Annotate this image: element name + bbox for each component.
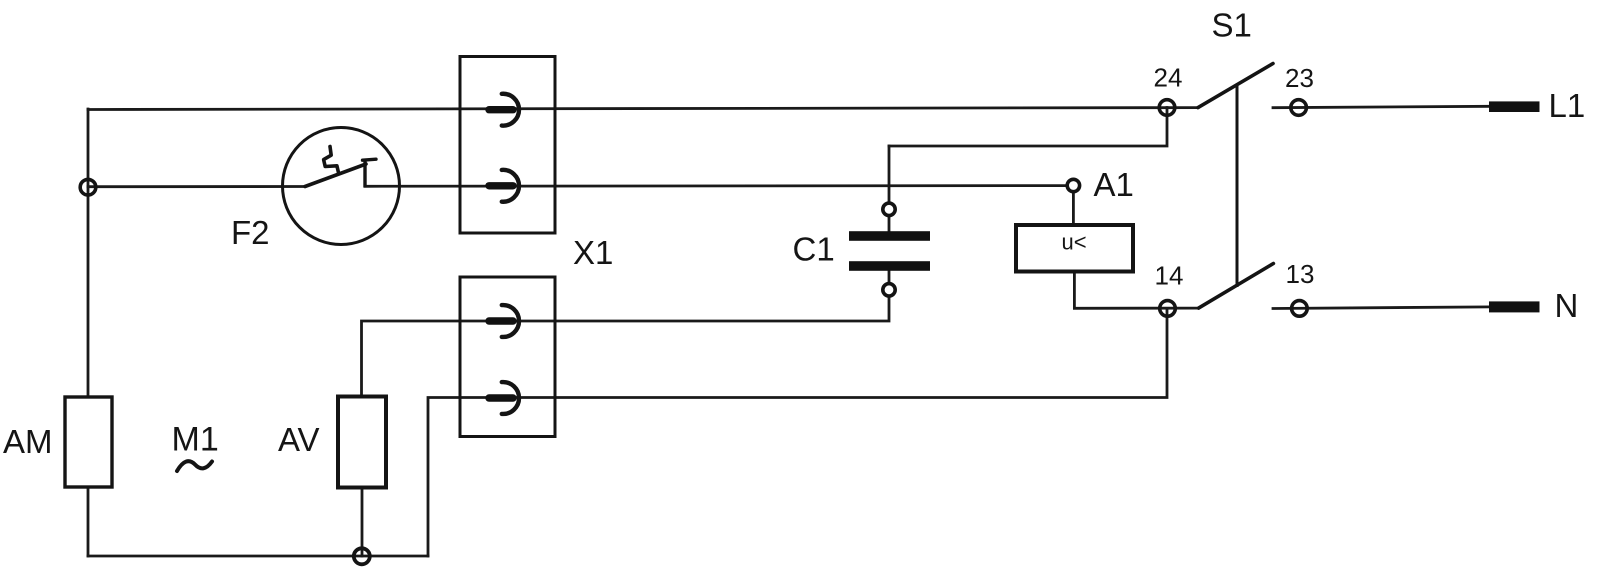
wire contact 13 to N terminal (1273, 307, 1490, 309)
undervoltage release coil A1 terminal circle (1067, 179, 1079, 191)
connector X1 socket arc 2 (502, 170, 519, 202)
wire AV top to lower X1 row1 and C1 bottom (362, 296, 890, 398)
undervoltage release box U1 (1016, 225, 1133, 272)
svg-text:AM: AM (3, 423, 53, 460)
wire C1 top branch to contact 24 (889, 108, 1167, 147)
svg-text:F2: F2 (231, 214, 270, 251)
motor M1 AC tilde symbol (177, 461, 212, 471)
svg-text:S1: S1 (1212, 7, 1252, 44)
switch S1 contact 13 circle (1292, 301, 1308, 317)
F2 body circle (283, 128, 400, 245)
wire top horizontal L1-feed from top-left corner to S1 contact 24 (88, 108, 1198, 110)
wire contact 23 to L1 terminal (1273, 106, 1490, 107)
svg-text:23: 23 (1285, 63, 1314, 93)
svg-text:L1: L1 (1549, 87, 1586, 124)
capacitor C1 bottom terminal circle (883, 284, 895, 296)
svg-text:C1: C1 (793, 231, 835, 268)
terminal L1 solid bar (1489, 101, 1540, 112)
F2 blade (305, 164, 366, 187)
wire bottom rail (88, 555, 428, 558)
connector block X1 upper rectangle (460, 57, 555, 234)
wire u-box bottom to contact 14 (1074, 272, 1198, 309)
svg-text:M1: M1 (172, 421, 219, 459)
svg-text:14: 14 (1155, 260, 1184, 290)
connector X1 socket arc 1 (502, 94, 519, 126)
svg-text:13: 13 (1286, 259, 1315, 289)
connector X1 socket arc 3 (502, 305, 519, 337)
wire left vertical from top corner down to AM (87, 109, 90, 397)
thermal circuit breaker F2 (283, 128, 400, 245)
switch S1 mechanical link (1236, 84, 1239, 288)
wire AV bottom to junction (361, 488, 364, 556)
connector X1 pin 3 (plug bar) (489, 317, 513, 324)
F2 fixed contact tick (363, 159, 377, 160)
terminal circle left junction (80, 179, 96, 195)
wire F2 line from left terminal to F2 (88, 185, 305, 188)
switch S1 upper blade (1198, 64, 1273, 108)
svg-text:A1: A1 (1094, 166, 1134, 203)
switch S1 lower blade (1199, 264, 1274, 309)
junction circle bottom node (354, 548, 370, 564)
connector block X1 lower rectangle (460, 277, 555, 437)
capacitor C1 top plate (849, 231, 930, 241)
wire bottom-right vertical up to lower X1 row2 (428, 308, 1167, 556)
F2 fixed contact vertical (363, 160, 366, 187)
wire AM bottom to bottom rail (87, 487, 90, 556)
terminal N solid bar (1489, 301, 1540, 312)
wire F2 to A1 through X1 (365, 184, 1068, 187)
connector X1 pin 4 (plug bar) (489, 394, 513, 401)
svg-text:N: N (1555, 287, 1579, 324)
svg-text:u<: u< (1062, 230, 1087, 255)
connector X1 pin 1 (plug bar) (489, 106, 513, 113)
capacitor C1 top terminal circle (883, 203, 895, 215)
switch S1 contact 24 circle (1159, 100, 1175, 116)
connector X1 socket arc 4 (502, 382, 519, 414)
switch S1 contact 14 circle (1160, 301, 1176, 317)
wire C1 bottom plate to circle (888, 271, 891, 285)
svg-text:24: 24 (1154, 62, 1183, 92)
connector X1 pin 2 (plug bar) (489, 182, 513, 189)
svg-text:AV: AV (278, 421, 320, 458)
wire A1 circle to u-box (1072, 192, 1075, 226)
wire C1 upper stub (888, 146, 891, 204)
svg-text:X1: X1 (573, 234, 613, 271)
switch S1 contact 23 circle (1291, 100, 1307, 116)
F2 thermal release squiggle (324, 147, 339, 173)
capacitor C1 bottom plate (849, 261, 930, 271)
auxiliary winding resistor AV box (338, 397, 386, 488)
wire C1 circle to top plate (888, 215, 891, 232)
motor ballast resistor AM box (65, 397, 112, 487)
